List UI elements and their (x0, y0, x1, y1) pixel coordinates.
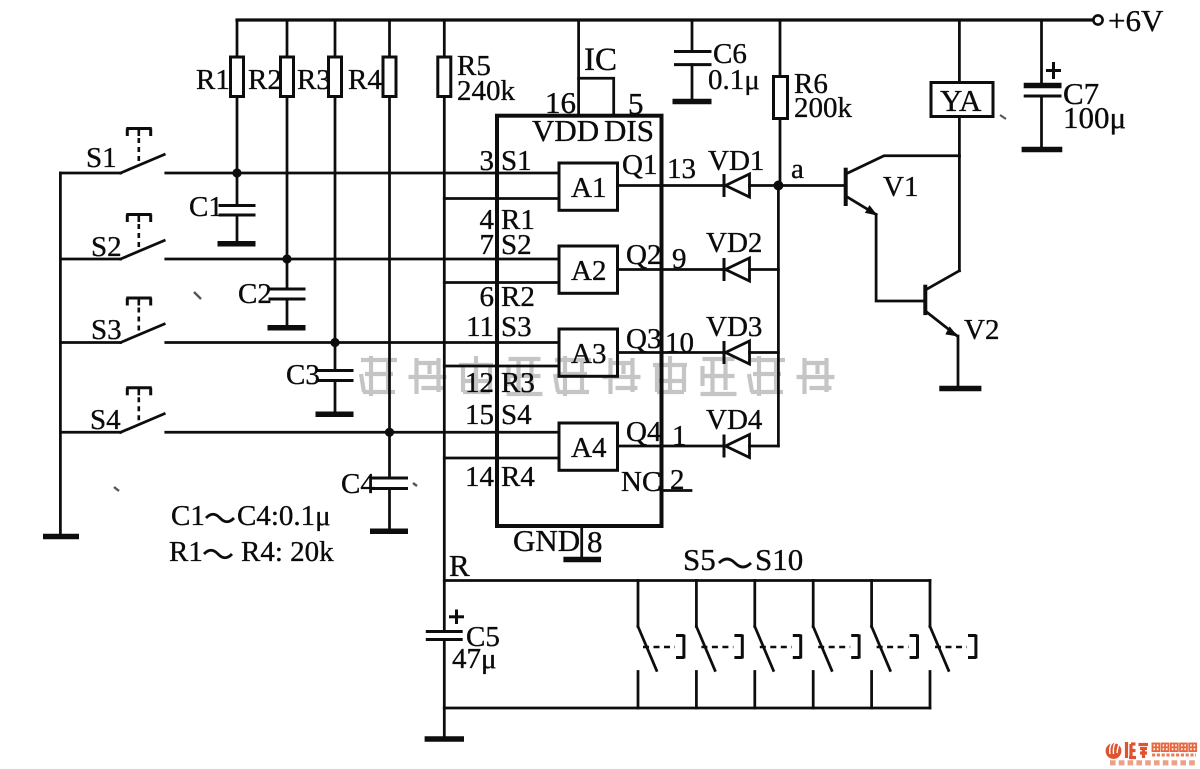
ground (C3) (316, 411, 354, 417)
svg-text:VD1: VD1 (708, 145, 764, 177)
svg-text:A4: A4 (571, 432, 607, 464)
capacitor C1 0.1u (189, 173, 256, 242)
wire: VD2 anode to bus (750, 268, 779, 271)
svg-text:V1: V1 (883, 171, 918, 203)
value note R1~R4 (169, 536, 334, 568)
resistor R2 (248, 20, 294, 259)
ground (C5 / switch bank return) (425, 736, 464, 742)
wire: YA to V2 collector (958, 156, 961, 271)
svg-text:3: 3 (480, 145, 495, 177)
node a (773, 153, 804, 191)
capacitor C2 0.1u (238, 259, 306, 326)
svg-text:100μ: 100μ (1063, 100, 1126, 135)
svg-text:Q1: Q1 (622, 149, 657, 181)
wire: V2 emitter to ground (957, 336, 960, 386)
svg-text:VDD: VDD (532, 113, 599, 148)
svg-text:+6V: +6V (1108, 3, 1164, 38)
svg-text:R3: R3 (297, 64, 331, 96)
svg-text:C1: C1 (189, 191, 223, 223)
capacitor C5 47u (electrolytic) (426, 610, 500, 709)
ground (C1) (218, 241, 256, 247)
svg-text:S3: S3 (501, 311, 532, 343)
svg-text:A2: A2 (571, 255, 606, 287)
ground (C7) (1022, 147, 1063, 153)
capacitor C7 100u (electrolytic) (1024, 20, 1126, 147)
维库 logo (bottom-right, approximated) (1106, 742, 1197, 763)
node S4/C4 junction (385, 428, 394, 437)
diode VD2 (706, 227, 762, 281)
svg-text:YA: YA (940, 83, 982, 118)
switch S10 (pushbutton) (930, 581, 976, 709)
svg-text:47μ: 47μ (452, 643, 497, 675)
pin 2 NC (621, 464, 691, 498)
svg-text:IC: IC (584, 42, 617, 78)
wire: VD3 anode to bus (750, 351, 779, 354)
diode VD3 (706, 311, 762, 364)
svg-text:11: 11 (466, 311, 494, 343)
svg-text:A1: A1 (571, 172, 606, 204)
wire: left common bus (59, 173, 62, 534)
diode VD4 (706, 404, 763, 458)
transistor V2 (925, 271, 999, 346)
wire: pin 14 R4 stub (444, 457, 559, 460)
node S2/C2 junction (282, 254, 291, 263)
pin 4 R1 (480, 204, 535, 236)
svg-text:Q2: Q2 (626, 239, 661, 271)
wire: diode OR bus (777, 186, 780, 447)
switch S8 (pushbutton) (813, 581, 859, 709)
svg-text:C4:0.1μ: C4:0.1μ (237, 500, 331, 532)
svg-text:DIS: DIS (604, 113, 654, 148)
wire: pin 12 R3 stub (444, 365, 559, 368)
svg-text:C1: C1 (171, 500, 205, 532)
switch S4 (pushbutton) (60, 388, 559, 436)
wire: C5 to bottom ground (443, 708, 446, 736)
svg-text:NC: NC (621, 466, 661, 498)
node S3/C3 junction (330, 338, 339, 347)
svg-text:S2: S2 (91, 231, 122, 263)
pin 7 S2 (480, 229, 532, 261)
sounder YA (931, 20, 993, 156)
svg-text:13: 13 (667, 153, 696, 185)
switch S9 (pushbutton) (872, 581, 918, 709)
label S5~S10 (683, 542, 803, 577)
op IC box (CD4044-style quad latch) (497, 116, 662, 526)
wire Q3 output (618, 351, 725, 354)
label Q1 pin 13 (622, 149, 696, 185)
watermark 杭州将睿科技有限公司 (approximated) (361, 356, 835, 396)
svg-text:Q4: Q4 (626, 416, 662, 448)
switch S3 (pushbutton) (60, 298, 559, 346)
ground (C4) (370, 528, 408, 534)
label Q4 pin 1 (626, 416, 687, 452)
scan speckles (decorative) (114, 115, 1006, 491)
resistor R5 240k (438, 20, 516, 107)
switch S2 (pushbutton) (60, 215, 559, 264)
switch S6 (pushbutton) (696, 581, 742, 709)
svg-text:C4: C4 (341, 468, 375, 500)
ground (V2) (939, 386, 981, 392)
svg-text:S1: S1 (86, 142, 117, 174)
switch S7 (pushbutton) (755, 581, 801, 709)
svg-text:a: a (791, 153, 804, 185)
ground (left bus) (43, 534, 79, 540)
svg-text:1: 1 (672, 420, 687, 452)
gate A2 (559, 246, 618, 293)
pin 14 R4 (465, 461, 535, 493)
IC ground pin 8 GND (513, 523, 603, 559)
pin 6 R2 (480, 281, 535, 313)
svg-text:R3: R3 (501, 367, 535, 399)
wire: VD4 anode to bus (750, 445, 779, 448)
svg-text:8: 8 (587, 524, 603, 559)
svg-text:S2: S2 (501, 229, 532, 261)
resistor R6 200k (774, 20, 853, 186)
gate A1 (559, 163, 618, 210)
wire Q1 output (618, 184, 725, 187)
svg-text:S10: S10 (755, 542, 803, 577)
svg-text:V2: V2 (964, 314, 999, 346)
value note C1~C4 (171, 500, 331, 532)
svg-text:S4: S4 (90, 404, 121, 436)
ground (C6) (673, 99, 712, 105)
IC power pin 16 VDD / pin 5 DIS connector (545, 20, 644, 121)
wire: switch bank top rail (444, 579, 930, 582)
svg-text:C3: C3 (286, 359, 320, 391)
wire: +6V supply top rail (237, 18, 1093, 21)
terminal +6V (1093, 3, 1164, 38)
svg-text:7: 7 (480, 229, 495, 261)
svg-text:S1: S1 (501, 145, 532, 177)
diode VD1 (708, 145, 764, 197)
svg-text:6: 6 (480, 281, 495, 313)
svg-text:240k: 240k (457, 75, 516, 107)
pin 12 R3 (465, 367, 535, 399)
capacitor C4 0.1u (341, 432, 408, 529)
svg-text:A3: A3 (571, 338, 606, 370)
svg-text:200k: 200k (794, 92, 853, 124)
label Q2 pin 9 (626, 239, 687, 275)
capacitor C6 0.1u (674, 20, 760, 99)
resistor R1 (196, 20, 244, 173)
svg-text:12: 12 (465, 367, 494, 399)
svg-text:R2: R2 (501, 281, 535, 313)
svg-text:R2: R2 (248, 64, 282, 96)
svg-text:VD3: VD3 (706, 311, 762, 343)
transistor V1 (846, 156, 960, 216)
ground (IC pin 8) (563, 557, 601, 563)
wire: VD1 anode to bus (750, 184, 844, 187)
svg-text:R4: R4 (348, 64, 382, 96)
svg-text:R4: R4 (501, 461, 535, 493)
wire: R net vertical (R5/C5/reset) (443, 97, 446, 631)
node S1/C1 junction (232, 168, 241, 177)
resistor R3 (297, 20, 342, 343)
svg-text:14: 14 (465, 461, 495, 493)
pin 15 S4 (465, 399, 532, 431)
svg-text:C2: C2 (238, 278, 272, 310)
wire: V1 emitter to V2 base (876, 215, 923, 302)
label Q3 pin 10 (626, 323, 694, 359)
switch S5 (pushbutton) (638, 581, 684, 709)
svg-text:Q3: Q3 (626, 323, 661, 355)
svg-text:S4: S4 (501, 399, 532, 431)
wire: pin 4 R1 stub (444, 197, 559, 200)
wire: switch bank bottom rail (444, 707, 930, 710)
resistor R4 (348, 20, 396, 432)
svg-text:10: 10 (665, 327, 694, 359)
ground (C2) (268, 325, 306, 331)
gate A3 (559, 329, 618, 376)
svg-text:R4: 20k: R4: 20k (241, 536, 334, 568)
svg-text:9: 9 (672, 243, 687, 275)
wire Q4 output (618, 445, 725, 448)
pin 11 S3 (466, 311, 532, 343)
svg-text:R1: R1 (196, 64, 230, 96)
svg-text:R: R (449, 548, 470, 583)
wire Q2 output (618, 268, 725, 271)
svg-text:R1: R1 (169, 536, 203, 568)
svg-text:VD2: VD2 (706, 227, 762, 259)
gate A4 (559, 423, 618, 470)
svg-text:15: 15 (465, 399, 494, 431)
wire: pin 6 R2 stub (444, 281, 559, 284)
svg-text:S5: S5 (683, 542, 716, 577)
svg-text:GND: GND (513, 523, 580, 558)
capacitor C3 0.1u (286, 343, 354, 413)
svg-text:0.1μ: 0.1μ (708, 64, 760, 96)
switch S1 (pushbutton) (60, 129, 559, 175)
pin 3 S1 (480, 145, 532, 177)
svg-text:S3: S3 (91, 314, 122, 346)
svg-text:VD4: VD4 (706, 404, 763, 436)
